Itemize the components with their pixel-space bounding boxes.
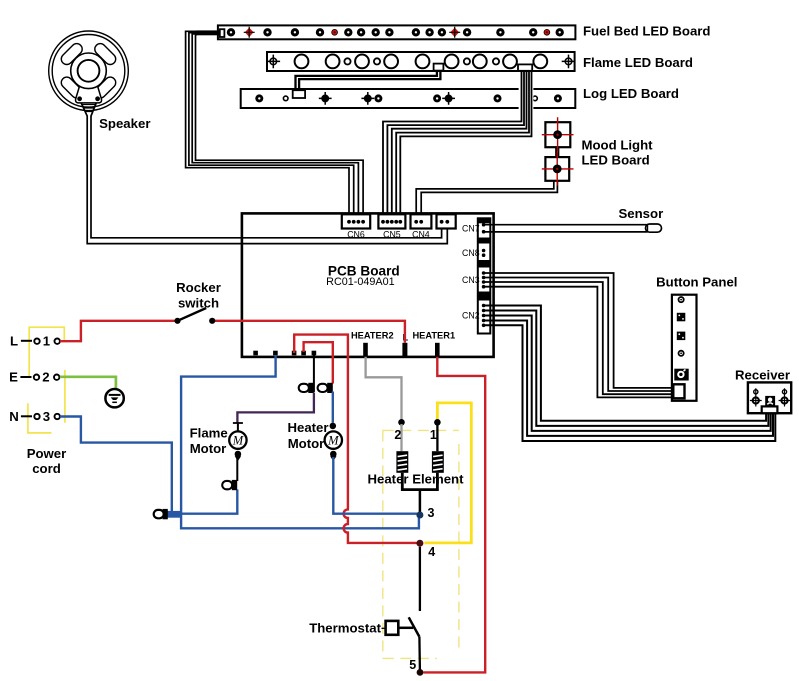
- svg-text:switch: switch: [178, 296, 219, 311]
- svg-text:CN5: CN5: [383, 230, 401, 240]
- flame board connector right: [518, 64, 532, 70]
- wire purple fuse to flame motor: [237, 393, 314, 423]
- svg-text:Heater Element: Heater Element: [367, 471, 464, 486]
- mood lower LED: [553, 165, 562, 174]
- fuel bed red bi-colour LEDs: [244, 27, 550, 38]
- wire blue heater motor return to junction 3: [333, 457, 419, 514]
- svg-text:M: M: [232, 434, 244, 448]
- wire fuel-bed to CN6 (4 wires): [186, 31, 364, 222]
- wire live red L1 to rocker switch: [60, 321, 176, 341]
- PCB board U1 RC01-049A01: [242, 213, 494, 357]
- node 2: [398, 419, 405, 426]
- svg-text:LED Board: LED Board: [582, 153, 650, 168]
- svg-text:2: 2: [42, 370, 49, 385]
- svg-text:CN6: CN6: [347, 230, 365, 240]
- speaker wire hatching: [82, 105, 95, 112]
- receiver IR module: [765, 396, 775, 406]
- wire red PCB pin to junction 4 (with hops): [294, 335, 416, 543]
- svg-text:M: M: [327, 434, 339, 448]
- speaker body: [49, 31, 129, 111]
- svg-text:Log LED Board: Log LED Board: [583, 86, 679, 101]
- svg-text:1: 1: [430, 428, 437, 442]
- terminal N ring 1: [34, 414, 39, 419]
- junction block neutral: [165, 511, 181, 518]
- terminal L lead: [21, 340, 32, 342]
- thermal fuse flame motor circuit F1: [299, 383, 314, 393]
- wire neutral blue PCB pin to junction 3: [181, 355, 419, 528]
- thermal fuse heater motor circuit F2: [318, 383, 333, 393]
- svg-text:E: E: [9, 370, 18, 385]
- receiver mount left: [750, 388, 762, 406]
- receiver: [748, 382, 791, 413]
- terminal L ring 2: [55, 339, 60, 344]
- CN6 pins: [347, 220, 365, 224]
- wire flame-board right connector to CN5 (5 wires): [383, 71, 532, 222]
- sensor wires and body: [484, 225, 648, 232]
- receiver connector tab: [762, 406, 778, 413]
- wire gray HEATER2 to element 2: [366, 357, 402, 421]
- svg-text:L: L: [10, 334, 18, 349]
- CN1 pins: [440, 220, 449, 224]
- svg-text:2: 2: [394, 428, 401, 442]
- svg-text:CN8: CN8: [462, 248, 480, 258]
- junction node 4: [416, 540, 423, 547]
- button panel connector: [673, 384, 684, 398]
- right connector strip CN7/CN8/CN3/CN2: [478, 218, 491, 333]
- flame board mounting holes: [267, 55, 576, 69]
- flame motor M1: [229, 431, 246, 461]
- PCB bottom pins row: [253, 351, 316, 356]
- flame board connector left: [434, 64, 444, 71]
- wire black PCB pin to flame motor fuse: [313, 351, 315, 392]
- svg-text:CN3: CN3: [462, 275, 480, 285]
- wire neutral blue N3 down: [60, 417, 172, 513]
- mood light LED board lower: [545, 157, 569, 181]
- terminal E lead: [20, 376, 31, 378]
- flame motor terminal tick: [233, 422, 243, 424]
- CN3 pins: [482, 271, 486, 288]
- heater element R1 coil 2: [396, 451, 408, 473]
- fuel bed LEDs: [227, 28, 564, 36]
- CN7 pins: [482, 223, 486, 234]
- thermostat TH1: [386, 617, 420, 637]
- flame LED board: [267, 52, 576, 71]
- svg-text:5: 5: [409, 658, 416, 672]
- button panel encoder: [674, 369, 688, 381]
- pin L: [402, 343, 407, 357]
- svg-text:Fuel Bed LED Board: Fuel Bed LED Board: [583, 23, 711, 38]
- terminal L ring 1: [34, 339, 39, 344]
- CN8 pins: [482, 249, 486, 257]
- wire black junction4 to thermostat: [419, 547, 421, 611]
- terminal N ring 2: [55, 414, 60, 419]
- wire red PCB pin to heater motor fuse: [304, 342, 333, 383]
- log board connector: [293, 90, 305, 98]
- fuel bed LED board: [196, 25, 575, 39]
- connector CN1 speaker: [437, 214, 456, 228]
- pin HEATER1: [435, 343, 440, 357]
- svg-text:cord: cord: [32, 461, 61, 476]
- log board LEDs: [255, 94, 562, 102]
- fuel bed board connector stub: [196, 30, 220, 35]
- mood upper cross lines: [542, 117, 574, 152]
- junction node 5: [417, 669, 424, 676]
- svg-text:3: 3: [428, 506, 435, 520]
- terminal E ring 1: [34, 375, 39, 380]
- svg-text:Flame: Flame: [190, 426, 228, 441]
- wire mood light to CN4 (2 wires): [416, 181, 557, 222]
- log board mounting holes: [319, 92, 455, 105]
- wire earth green: [60, 377, 116, 389]
- svg-text:HEATER1: HEATER1: [412, 330, 455, 340]
- svg-text:3: 3: [43, 409, 50, 424]
- svg-text:Power: Power: [27, 446, 67, 461]
- receiver mount right: [779, 388, 791, 406]
- button panel LED hole bottom: [679, 351, 684, 356]
- thermal fuse flame return F3: [222, 480, 237, 490]
- wire yellow element 1 loop to junction 4: [424, 403, 471, 543]
- svg-text:Thermostat: Thermostat: [309, 621, 381, 636]
- speaker wires to PCB: [80, 100, 448, 244]
- heater motor M2: [325, 431, 342, 461]
- terminal N lead: [21, 415, 32, 417]
- heater motor top node: [330, 423, 337, 430]
- wire CN2 to receiver (5 wires): [484, 306, 776, 442]
- junction node 3: [416, 512, 423, 519]
- sensor tip: [646, 224, 662, 232]
- speaker terminal skirt: [76, 85, 102, 103]
- button panel: [672, 295, 697, 401]
- svg-text:N: N: [9, 409, 19, 424]
- wire black flame motor to fuse: [236, 457, 238, 481]
- svg-text:Speaker: Speaker: [99, 116, 150, 131]
- heater assembly dashed yellow boundary: [383, 430, 459, 658]
- rocker switch S1: [174, 308, 215, 324]
- wire live red rocker to PCB L pin: [214, 321, 405, 343]
- connector CN4: [411, 214, 432, 228]
- svg-text:4: 4: [428, 545, 435, 559]
- heater element R1 coil 1: [432, 451, 444, 473]
- flame board LEDs: [295, 55, 548, 69]
- svg-text:RC01-049A01: RC01-049A01: [326, 276, 394, 288]
- node 1: [434, 419, 441, 426]
- speaker terminals: [77, 96, 82, 101]
- plug connector at junction block: [154, 509, 168, 519]
- svg-text:Flame LED Board: Flame LED Board: [583, 55, 693, 70]
- wire black thermostat to node 5: [418, 637, 421, 670]
- wire flame-board to log-board jumper pair: [296, 71, 441, 91]
- wire blue heater motor feed: [332, 392, 334, 423]
- log LED board: [241, 89, 576, 108]
- pin HEATER2: [363, 343, 368, 357]
- white halo where flame bundle crosses log board: [519, 87, 534, 111]
- mood lower cross lines: [542, 152, 574, 185]
- svg-text:Receiver: Receiver: [735, 368, 790, 383]
- svg-text:CN4: CN4: [412, 230, 430, 240]
- button panel switch 2: [677, 332, 686, 341]
- wire CN3 to button panel (4 wires): [484, 273, 674, 397]
- button panel switch 1: [677, 313, 686, 322]
- connector CN6: [342, 214, 370, 228]
- wire red HEATER1 to node 5: [423, 357, 485, 673]
- svg-text:Mood Light: Mood Light: [582, 138, 654, 153]
- wire gray node2 to coil: [400, 424, 402, 451]
- wire black node1 to coil: [436, 424, 438, 451]
- svg-text:Button Panel: Button Panel: [656, 275, 737, 290]
- button panel LED hole top: [679, 297, 684, 302]
- CN2 pins: [482, 304, 486, 327]
- mood light LED board upper: [545, 122, 570, 147]
- svg-text:HEATER2: HEATER2: [351, 330, 394, 340]
- svg-text:1: 1: [43, 334, 50, 349]
- wire black element bottom U to junction 3: [402, 473, 437, 490]
- connector CN5: [378, 214, 405, 228]
- svg-text:Rocker: Rocker: [176, 280, 221, 295]
- svg-text:CN7: CN7: [462, 223, 480, 233]
- svg-text:Heater: Heater: [287, 420, 328, 435]
- svg-text:Sensor: Sensor: [619, 206, 664, 221]
- power cord yellow housing outline: [28, 327, 65, 433]
- svg-text:Motor: Motor: [288, 436, 325, 451]
- wire blue junction block to flame motor return: [182, 489, 238, 513]
- terminal E ring 2: [54, 375, 59, 380]
- CN4 pins: [414, 220, 423, 224]
- ground symbol: [105, 389, 123, 407]
- wire between mood boards: [556, 135, 558, 169]
- svg-text:Motor: Motor: [190, 441, 227, 456]
- mood upper LED: [553, 130, 562, 139]
- CN5 pins: [381, 220, 402, 224]
- svg-text:CN2: CN2: [462, 311, 480, 321]
